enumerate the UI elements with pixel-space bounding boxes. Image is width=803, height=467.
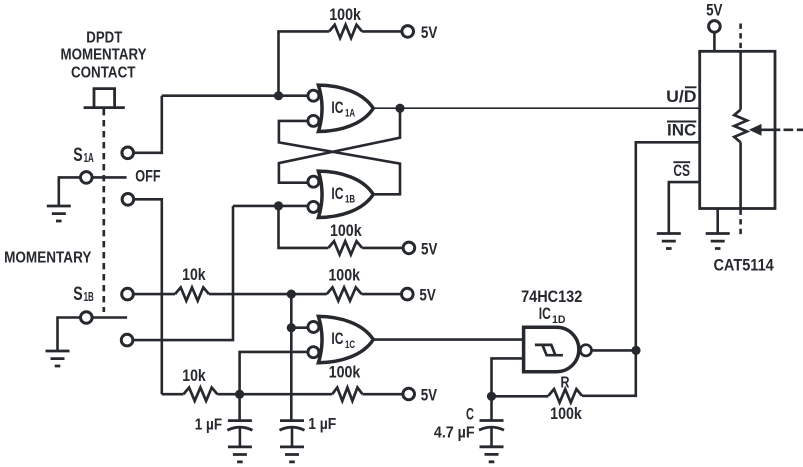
svg-text:R: R	[561, 375, 570, 392]
ground at S1B	[46, 351, 70, 366]
wire IC1C top input	[291, 326, 307, 329]
node RC junction	[487, 392, 496, 401]
wire IC1C bottom input	[240, 352, 308, 394]
schmitt hysteresis symbol	[535, 345, 563, 355]
label 100k row4	[329, 363, 361, 382]
label 100k row3	[328, 265, 360, 284]
svg-text:C: C	[466, 406, 474, 424]
svg-text:S: S	[73, 144, 82, 166]
mechanical linkage dashed line	[102, 109, 105, 312]
svg-text:IC: IC	[331, 330, 343, 348]
wire row4 left	[162, 393, 184, 396]
svg-text:IC: IC	[539, 305, 551, 323]
svg-text:1A: 1A	[345, 108, 355, 120]
wire S1B pole to ground	[56, 316, 59, 351]
5V terminal row2	[403, 242, 415, 254]
wire IC1A output to CAT5114 U/D	[373, 107, 699, 109]
resistor 100k row4	[332, 388, 362, 401]
5V terminal CAT5114	[709, 21, 721, 52]
switch S1A pole contact	[81, 172, 93, 184]
ground at S1A	[47, 206, 71, 221]
node row4 junction	[235, 390, 244, 399]
ground at C1	[228, 447, 252, 462]
label 5V row4	[421, 385, 438, 404]
svg-text:INC: INC	[667, 121, 697, 139]
potentiometer resistor element	[734, 110, 747, 143]
label 1uF left	[195, 417, 222, 434]
wire row3 middle	[209, 293, 327, 296]
label 10k row4	[182, 366, 206, 385]
label CAT5114	[713, 256, 774, 275]
label R	[561, 375, 570, 392]
label 4.7uF	[434, 425, 475, 442]
svg-text:CS: CS	[673, 162, 690, 180]
label 1uF right	[308, 416, 336, 433]
label 100k row2	[330, 221, 362, 240]
node IC1A output junction	[395, 104, 404, 113]
capacitor C2 1uF	[280, 421, 305, 447]
label 5V row2	[421, 239, 438, 258]
gate IC1D output bubble	[580, 345, 591, 356]
wire row4 middle	[217, 393, 332, 396]
label 5V row1	[421, 23, 438, 42]
wire IC1A bottom input from IC1B output	[279, 121, 400, 194]
wire S1B bottom throw to IC1B input	[133, 206, 233, 340]
ground at C2	[280, 447, 304, 462]
node row3 junction	[287, 290, 296, 299]
switch S1B pole wire	[58, 316, 128, 319]
wire box bottom to ground	[716, 209, 719, 234]
svg-text:S: S	[73, 283, 82, 305]
wire IC1B bottom input	[233, 205, 308, 208]
svg-text:100k: 100k	[328, 265, 360, 284]
svg-text:100k: 100k	[329, 5, 361, 24]
svg-text:DPDT: DPDT	[86, 30, 122, 47]
wire IC1C output to IC1D	[373, 338, 523, 341]
wire IC1D output up to INC	[636, 142, 700, 350]
op-amp gate IC1C	[308, 316, 373, 362]
wire row1 to 5V	[362, 30, 402, 33]
resistor R 100k	[548, 389, 582, 402]
wire row2 to 5V	[362, 247, 403, 250]
svg-text:U/D: U/D	[666, 88, 697, 106]
wire IC1A top input	[162, 94, 308, 97]
wire row3 node down to cap	[290, 294, 293, 420]
resistor 100k row2	[328, 241, 362, 254]
svg-text:4.7 µF: 4.7 µF	[434, 425, 475, 442]
node IC1A top input junction	[274, 91, 283, 100]
dashed wiper wire right	[784, 129, 803, 132]
5V terminal row1	[402, 26, 414, 38]
resistor 100k row1	[329, 25, 362, 38]
ground at CAT5114	[706, 234, 730, 249]
svg-text:1 µF: 1 µF	[308, 416, 336, 433]
capacitor C 4.7uF	[479, 421, 504, 447]
wire row3 to 5V	[362, 293, 402, 296]
svg-text:CONTACT: CONTACT	[71, 65, 136, 82]
op-amp gate IC1A	[308, 85, 373, 131]
svg-text:5V: 5V	[419, 286, 436, 305]
switch label DPDT MOMENTARY CONTACT	[61, 30, 147, 82]
wiper arrow	[749, 124, 781, 136]
switch S1B label	[73, 283, 93, 305]
label pin U/D	[666, 87, 697, 106]
pushbutton actuator	[84, 89, 125, 108]
svg-text:100k: 100k	[330, 221, 362, 240]
dashed wiper axis below box	[739, 210, 742, 238]
switch S1B pole contact	[81, 312, 93, 324]
svg-text:74HC132: 74HC132	[521, 287, 582, 306]
5V terminal row4	[403, 388, 415, 400]
node IC1D output junction	[631, 346, 640, 355]
gate IC1D body	[524, 327, 579, 371]
svg-text:CAT5114: CAT5114	[713, 256, 774, 275]
wire S1B top throw to 10k	[133, 293, 175, 296]
label 100k row1	[329, 5, 361, 24]
ground at CS	[657, 234, 681, 249]
svg-text:1 µF: 1 µF	[195, 417, 222, 434]
svg-text:MOMENTARY: MOMENTARY	[4, 250, 92, 267]
potentiometer element top lead	[739, 51, 742, 109]
wire IC1A output to IC1B top input	[279, 108, 400, 183]
svg-text:5V: 5V	[706, 1, 723, 20]
svg-text:1B: 1B	[84, 290, 94, 304]
svg-text:IC: IC	[331, 185, 343, 203]
svg-text:100k: 100k	[550, 404, 582, 423]
wire S1A bottom throw down to 10k row	[134, 199, 162, 394]
label pin INC	[667, 121, 697, 139]
wire C down	[490, 396, 493, 420]
wire node to capacitor C1	[238, 394, 241, 420]
svg-text:10k: 10k	[182, 366, 206, 385]
wire pole to ground	[57, 176, 60, 206]
op-amp gate IC1B	[308, 171, 373, 217]
wire R to IC1D output	[582, 350, 636, 395]
label IC1D	[539, 305, 566, 326]
potentiometer element bottom lead	[739, 142, 742, 208]
svg-text:1A: 1A	[84, 151, 94, 165]
svg-text:IC: IC	[331, 99, 343, 117]
wire row4 to 5V	[363, 393, 404, 396]
5V terminal row3	[402, 288, 414, 300]
switch S1A top throw contact	[122, 147, 134, 159]
dashed wiper axis above box	[739, 24, 742, 52]
label 5V CAT5114	[706, 1, 723, 20]
svg-text:MOMENTARY: MOMENTARY	[61, 46, 147, 63]
svg-text:5V: 5V	[421, 23, 438, 42]
wire 100k row1 left	[279, 31, 330, 95]
label 74HC132	[521, 287, 582, 306]
wire CS to ground	[669, 182, 700, 233]
resistor 100k row3	[327, 287, 362, 300]
svg-text:OFF: OFF	[135, 166, 160, 185]
svg-text:10k: 10k	[182, 265, 206, 284]
svg-text:100k: 100k	[329, 363, 361, 382]
label C	[466, 406, 474, 424]
resistor 10k row3	[175, 287, 209, 300]
label OFF	[135, 166, 160, 185]
svg-text:5V: 5V	[421, 385, 438, 404]
wire RC row	[492, 395, 549, 398]
svg-text:5V: 5V	[421, 239, 438, 258]
node IC1B bottom input junction	[274, 201, 283, 210]
wire IC1D lower input	[492, 358, 524, 396]
IC CAT5114 box	[700, 51, 775, 208]
switch S1A bottom throw contact	[122, 194, 134, 206]
label 10k row3	[182, 265, 206, 284]
switch S1B top throw contact	[122, 288, 134, 300]
svg-text:1D: 1D	[552, 314, 566, 326]
node IC1C top input junction	[287, 323, 296, 332]
label 5V row3	[419, 286, 436, 305]
wire 100k row2 left	[279, 206, 329, 248]
svg-text:1B: 1B	[345, 194, 355, 206]
resistor 10k row4	[183, 388, 217, 401]
switch S1A pole wire	[59, 176, 127, 179]
label 100k R	[550, 404, 582, 423]
capacitor C1 1uF	[227, 421, 252, 447]
wire IC1D output	[592, 349, 636, 352]
svg-text:1C: 1C	[345, 339, 355, 351]
label MOMENTARY	[4, 250, 92, 267]
switch S1A label	[73, 144, 93, 166]
switch S1B bottom throw contact	[121, 334, 133, 346]
wire S1A top throw to IC1A input	[133, 96, 161, 153]
label pin CS	[673, 162, 690, 180]
ground at C 4.7uF	[480, 447, 504, 462]
